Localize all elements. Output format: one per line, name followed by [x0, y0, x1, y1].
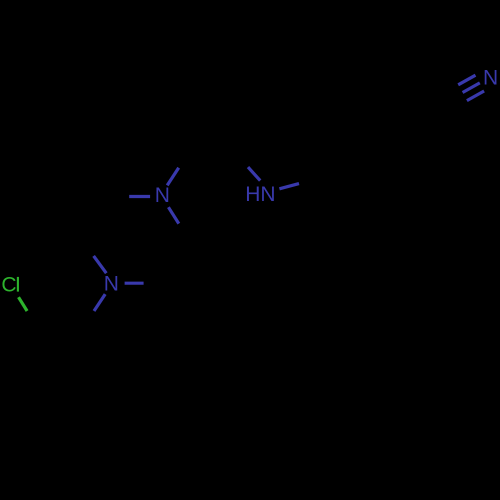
- chlorine label Cl : letter l drawn as bar (cap-height): [17, 277, 19, 292]
- piperazine N4 bond to ring carbon (right, horizontal) : blue half: [125, 282, 144, 285]
- svg-text:C: C: [1, 273, 16, 296]
- svg-text:HN: HN: [245, 183, 275, 206]
- indole N-H to C7a bond : blue half: [279, 184, 299, 189]
- piperazine N1 bond to linker CH2 (up-right) : blue half: [167, 168, 179, 186]
- chlorine to phenyl carbon bond : green half: [19, 297, 28, 311]
- piperazine N4 bond to ring carbon (up-left) : blue half: [94, 256, 107, 273]
- svg-text:N: N: [104, 272, 119, 295]
- piperazine N1 bond to ring carbon (down-right) : blue half: [168, 207, 178, 223]
- nitrile triple bond C#N : blue half, upper parallel line: [458, 75, 475, 85]
- piperazine N1 bond to ring carbon (left, horizontal) : blue half: [129, 195, 150, 198]
- nitrile triple bond C#N : blue half, middle line: [463, 83, 480, 93]
- svg-text:N: N: [155, 184, 170, 207]
- nitrile triple bond C#N : blue half, lower parallel line: [467, 91, 484, 101]
- svg-text:N: N: [483, 67, 498, 90]
- piperazine N4 bond to chlorophenyl carbon (down-left) : blue half: [94, 294, 105, 311]
- indole N-H to C2 bond : blue half: [248, 167, 260, 181]
